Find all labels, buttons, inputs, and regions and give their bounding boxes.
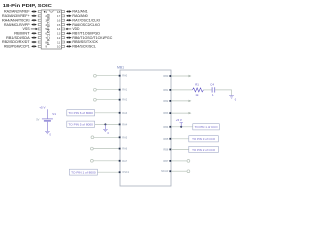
svg-text:RB1: RB1 [163, 89, 168, 92]
svg-text:R1: R1 [195, 83, 199, 87]
svg-text:9: 9 [45, 45, 47, 49]
svg-text:RA5: RA5 [122, 136, 127, 139]
svg-text:RB6: RB6 [163, 148, 168, 151]
svg-text:MB1: MB1 [117, 66, 124, 70]
svg-text:RB3: RB3 [163, 112, 168, 115]
svg-text:RB7: RB7 [163, 160, 168, 163]
svg-text:RB4/SCK/SCL: RB4/SCK/SCL [72, 45, 96, 49]
svg-text:RB0: RB0 [163, 75, 168, 78]
svg-text:RA4: RA4 [122, 123, 127, 126]
svg-text:+5 V: +5 V [39, 106, 45, 110]
svg-text:1: 1 [212, 93, 214, 97]
svg-text:MCLR: MCLR [161, 170, 168, 173]
svg-text:TO PIN 1 of 8000: TO PIN 1 of 8000 [71, 170, 96, 174]
svg-text:1k: 1k [195, 93, 199, 97]
svg-text:RB4: RB4 [163, 126, 168, 129]
svg-text:RB5: RB5 [163, 138, 168, 141]
svg-text:10: 10 [57, 45, 61, 49]
svg-text:0: 0 [235, 98, 237, 101]
svg-text:18-Pin PDIP, SOIC: 18-Pin PDIP, SOIC [3, 3, 53, 8]
svg-text:TO PIN 5 of 8000: TO PIN 5 of 8000 [68, 123, 93, 127]
svg-text:TO PIN 6 of 8000: TO PIN 6 of 8000 [68, 111, 93, 115]
svg-text:TO PIN 3 of CCO: TO PIN 3 of CCO [192, 137, 215, 141]
svg-text:0: 0 [108, 132, 110, 135]
svg-text:C4: C4 [210, 82, 214, 86]
svg-text:TO PIN 1 of CCO: TO PIN 1 of CCO [195, 125, 218, 129]
svg-text:RA0: RA0 [122, 75, 127, 78]
svg-text:5V: 5V [36, 117, 39, 121]
svg-text:0: 0 [50, 133, 52, 136]
svg-text:RA6: RA6 [122, 148, 127, 151]
svg-text:RB2: RB2 [163, 100, 168, 103]
svg-text:RA1: RA1 [122, 89, 127, 92]
svg-text:RA3: RA3 [122, 112, 127, 115]
svg-text:+5 V: +5 V [176, 118, 182, 122]
svg-text:RA7: RA7 [122, 160, 127, 163]
svg-text:OSC1: OSC1 [122, 171, 129, 174]
svg-text:RB3/PGM/CCP1: RB3/PGM/CCP1 [4, 45, 30, 49]
svg-text:RA2: RA2 [122, 99, 127, 102]
svg-text:V1: V1 [52, 112, 56, 116]
svg-text:TO PIN 2 of CCO: TO PIN 2 of CCO [192, 148, 215, 152]
